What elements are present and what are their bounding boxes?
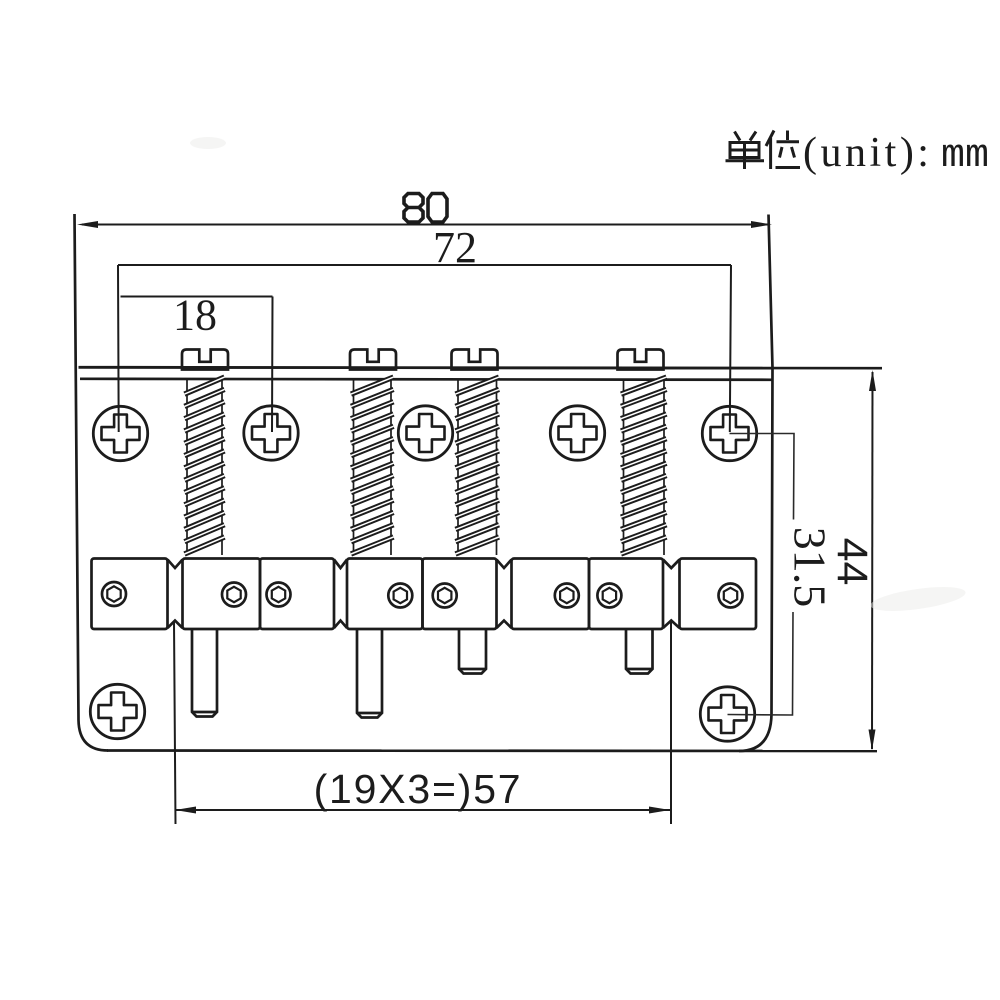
string anchor post 3 (459, 629, 486, 674)
units note: 位 glyph (drawn strokes) (766, 131, 800, 170)
dimension 31.5 leader lines (728, 434, 795, 716)
svg-text:18: 18 (173, 291, 217, 340)
svg-text:72: 72 (433, 223, 477, 272)
mounting screw 1 (phillips) (93, 406, 147, 460)
svg-text:(19X3=)57: (19X3=)57 (314, 766, 523, 812)
dimension (19X3=)57 line with arrows (175, 809, 670, 811)
saddle height screw 2 (222, 583, 246, 607)
intonation screw thread/spring 2 (354, 380, 392, 555)
mounting screw 3 (phillips) (398, 406, 452, 460)
saddle string notch 2 (334, 560, 347, 629)
bridge plate outline left edge + 80 extension (75, 214, 109, 751)
mounting screw 6 (phillips) (90, 684, 144, 738)
mounting screw 5 (phillips) (702, 406, 756, 460)
saddle string notch 4 (663, 560, 680, 629)
saddle height screw 4 (388, 584, 412, 608)
scan smudge (decorative) (869, 582, 967, 615)
saddle height screw 7 (597, 584, 621, 608)
units note: 单 glyph (drawn strokes) (726, 132, 765, 170)
saddle block B0 (92, 559, 168, 630)
svg-text:mm: mm (941, 134, 989, 179)
intonation screw head 2 (350, 350, 396, 370)
saddle block B1 (183, 559, 261, 630)
saddle height screw 1 (102, 582, 126, 606)
saddle block B7 (680, 559, 757, 630)
saddle string notch 3 (497, 560, 512, 629)
plate top edge over heads (79, 366, 773, 369)
dimension 72 line and extensions to screw centers (118, 265, 731, 432)
intonation screw thread/spring 1 (187, 380, 222, 555)
saddle block B2 (260, 559, 334, 630)
intonation screw thread/spring 4 (624, 380, 665, 555)
intonation screw head 1 (182, 350, 228, 370)
intonation screw head 3 (452, 350, 498, 370)
bridge plate outline right edge + 80 extension (739, 215, 773, 752)
svg-text:(unit):: (unit): (803, 130, 932, 176)
dimension 80 line with arrows (82, 224, 769, 226)
saddle block B3 (347, 559, 423, 630)
saddle height screw 6 (555, 584, 579, 608)
mounting screw 2 (phillips) (244, 406, 298, 460)
dimension 44 line with arrows (871, 372, 874, 749)
saddle height screw 3 (267, 583, 291, 607)
saddle string notch 1 (168, 560, 183, 629)
string anchor post 4 (626, 629, 653, 674)
plate top edge inner line (bent flange) (80, 379, 772, 380)
string anchor post 2 (357, 629, 382, 718)
saddle block B5 (512, 559, 590, 630)
string anchor post 1 (192, 629, 217, 717)
saddle height screw 5 (433, 584, 457, 608)
saddle block B4 (423, 559, 497, 630)
dimension 80 text (octagonal CAD digits) (404, 194, 447, 223)
plate bottom edge (with 44 extension line) (107, 749, 877, 752)
mounting screw 7 (phillips) (700, 687, 754, 741)
dimension 18 line and extension (121, 297, 273, 433)
svg-text:31.5: 31.5 (785, 527, 836, 608)
mounting screw 4 (phillips) (550, 406, 604, 460)
dimension (19X3=)57 extensions (174, 622, 671, 824)
saddle block B6 (589, 559, 663, 630)
plate top edge line (with 44 extension line) (79, 367, 883, 368)
intonation screw head 4 (618, 350, 664, 370)
saddle height screw 8 (719, 584, 743, 608)
intonation screw thread/spring 3 (458, 380, 497, 555)
